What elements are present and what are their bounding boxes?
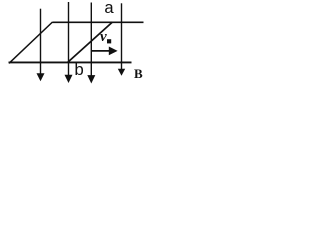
field line B4 [118, 3, 125, 76]
top rail [53, 21, 144, 23]
left connecting wire [9, 22, 53, 63]
rod ab [68, 22, 113, 63]
field line B1 [37, 9, 45, 82]
velocity vector v arrow [91, 47, 118, 56]
field line B3 [87, 3, 95, 84]
label a [104, 0, 114, 19]
bottom rail [9, 61, 132, 63]
label B [134, 66, 143, 82]
v label subscript square [107, 39, 111, 43]
label v [100, 29, 107, 46]
field line B2 [65, 2, 73, 83]
label b [74, 62, 84, 81]
